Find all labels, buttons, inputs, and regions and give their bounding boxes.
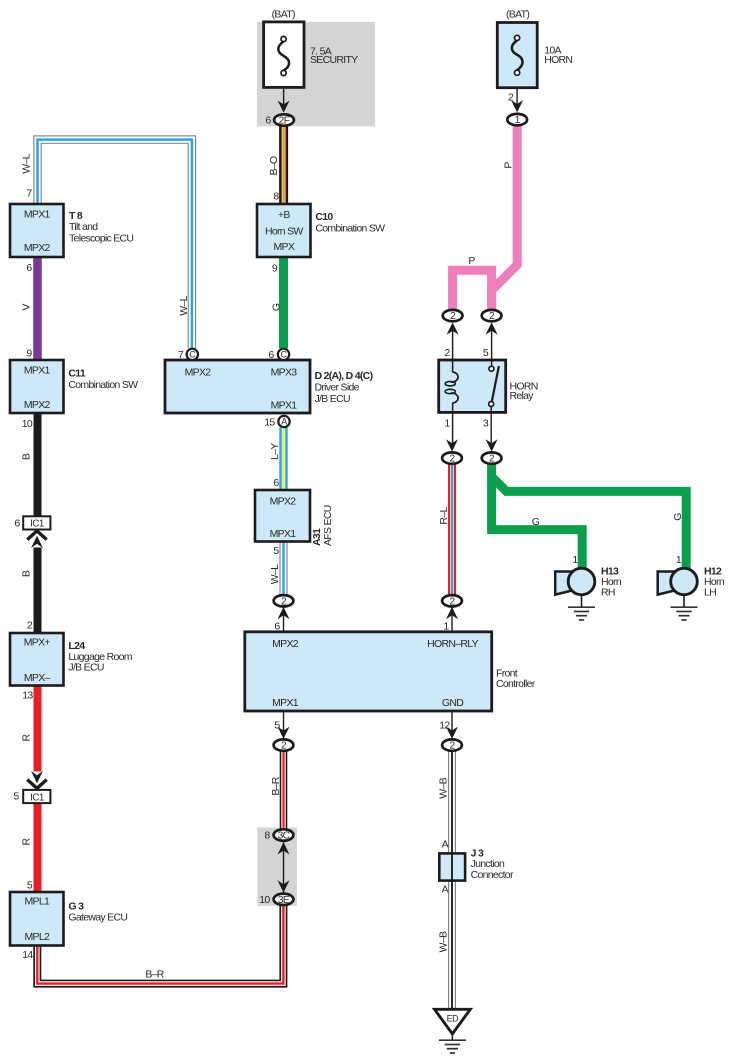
svg-text:1: 1 [444,418,450,430]
svg-text:3C: 3C [278,831,290,842]
svg-text:13: 13 [22,689,33,701]
svg-text:Relay: Relay [510,390,535,402]
svg-text:AFS ECU: AFS ECU [322,505,334,546]
svg-text:14: 14 [22,949,33,961]
svg-text:MPL2: MPL2 [24,931,49,943]
svg-text:J/B ECU: J/B ECU [315,393,350,405]
svg-text:G: G [532,516,540,528]
svg-text:Tilt and: Tilt and [69,221,98,233]
svg-text:A: A [281,417,287,427]
svg-text:C10: C10 [315,211,333,223]
svg-text:W–B: W–B [438,777,450,798]
svg-text:MPX3: MPX3 [271,367,298,379]
svg-text:C: C [189,350,196,360]
svg-text:10: 10 [259,894,270,906]
svg-text:R–L: R–L [438,507,450,525]
svg-text:MPX: MPX [273,241,294,253]
svg-text:IC1: IC1 [30,519,44,530]
svg-text:6: 6 [273,477,279,489]
svg-text:5: 5 [27,879,33,891]
svg-text:J/B ECU: J/B ECU [68,661,103,673]
svg-text:B–O: B–O [268,156,280,175]
svg-text:W–B: W–B [438,931,450,952]
svg-text:MPX–: MPX– [24,672,51,684]
svg-text:7: 7 [26,188,32,200]
svg-text:Telescopic ECU: Telescopic ECU [69,232,133,244]
svg-text:3: 3 [483,418,489,430]
svg-text:5: 5 [274,720,280,732]
svg-text:MPX2: MPX2 [270,496,297,508]
svg-text:1: 1 [443,621,449,633]
svg-text:W–L: W–L [21,153,33,173]
svg-text:B: B [20,570,32,577]
svg-text:HORN–RLY: HORN–RLY [427,638,478,650]
svg-text:2F: 2F [279,116,290,127]
svg-text:W–L: W–L [269,564,281,584]
svg-text:Combination SW: Combination SW [68,379,138,391]
svg-text:MPX1: MPX1 [24,364,51,376]
svg-text:G: G [270,303,282,311]
svg-text:V: V [20,304,32,311]
svg-text:C: C [281,350,288,360]
svg-text:MPX2: MPX2 [185,367,212,379]
svg-text:W–L: W–L [178,295,190,315]
svg-text:D 2(A), D 4(C): D 2(A), D 4(C) [315,370,373,382]
svg-text:1: 1 [676,554,682,566]
svg-text:(BAT): (BAT) [506,8,529,20]
svg-text:5: 5 [273,545,279,557]
svg-text:6: 6 [265,115,271,127]
svg-text:ED: ED [447,1014,460,1024]
svg-text:MPX1: MPX1 [24,209,51,221]
svg-text:MPX1: MPX1 [272,697,299,709]
svg-text:A: A [442,839,449,851]
svg-text:B: B [20,453,32,460]
svg-text:A: A [442,883,449,895]
svg-text:MPX2: MPX2 [24,399,51,411]
svg-text:(BAT): (BAT) [272,9,295,21]
svg-text:B–R: B–R [145,969,164,981]
svg-text:GND: GND [442,697,464,709]
svg-text:R: R [20,837,32,845]
svg-text:2: 2 [508,92,514,104]
svg-text:MPX2: MPX2 [272,638,299,650]
svg-text:MPX1: MPX1 [271,400,298,412]
svg-text:R: R [20,733,32,741]
svg-text:10: 10 [22,418,33,430]
svg-text:7: 7 [178,349,184,361]
svg-text:L–Y: L–Y [269,443,281,460]
svg-text:P: P [503,162,515,169]
svg-text:RH: RH [601,587,615,599]
svg-text:9: 9 [26,348,32,360]
svg-text:2: 2 [27,619,33,631]
svg-text:MPX+: MPX+ [24,637,51,649]
svg-text:P: P [468,255,475,267]
svg-text:LH: LH [704,587,716,599]
svg-text:+B: +B [278,209,290,221]
svg-text:B–R: B–R [270,776,282,795]
svg-text:HORN: HORN [544,54,572,66]
svg-text:6: 6 [268,349,274,361]
svg-text:5: 5 [483,347,489,359]
svg-text:Combination SW: Combination SW [315,223,385,235]
svg-text:12: 12 [439,720,450,732]
svg-text:Gateway ECU: Gateway ECU [68,912,127,924]
svg-text:IC1: IC1 [30,792,44,803]
svg-text:G: G [672,513,684,521]
svg-text:Connector: Connector [471,869,514,881]
svg-text:1: 1 [572,554,578,566]
svg-text:15: 15 [264,417,275,429]
svg-text:3E: 3E [278,895,290,906]
svg-text:6: 6 [274,621,280,633]
svg-text:6: 6 [14,518,20,530]
svg-text:2: 2 [444,347,450,359]
svg-text:SECURITY: SECURITY [310,54,358,66]
svg-text:8: 8 [273,190,279,202]
svg-text:Driver Side: Driver Side [315,381,360,393]
svg-text:MPL1: MPL1 [24,896,49,908]
svg-text:MPX1: MPX1 [270,528,297,540]
svg-text:MPX2: MPX2 [24,242,51,254]
svg-text:5: 5 [13,791,19,803]
svg-text:Horn SW: Horn SW [265,226,303,238]
svg-text:Controller: Controller [496,678,536,690]
svg-text:8: 8 [264,830,270,842]
svg-text:9: 9 [272,263,278,275]
svg-text:6: 6 [26,262,32,274]
